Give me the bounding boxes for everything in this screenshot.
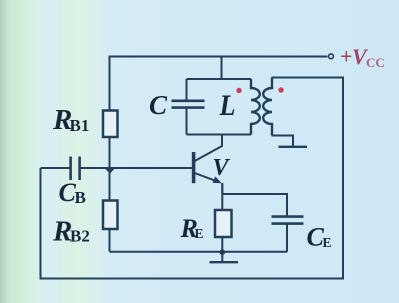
svg-text:B2: B2 [70, 227, 90, 246]
svg-text:B: B [75, 188, 86, 207]
svg-text:E: E [323, 235, 332, 250]
svg-text:L: L [219, 89, 236, 122]
svg-text:C: C [149, 90, 168, 120]
svg-text:V: V [213, 155, 231, 181]
svg-text:B1: B1 [70, 116, 90, 135]
svg-text:CC: CC [366, 55, 385, 70]
svg-text:+: + [340, 44, 353, 69]
svg-text:E: E [195, 226, 204, 241]
